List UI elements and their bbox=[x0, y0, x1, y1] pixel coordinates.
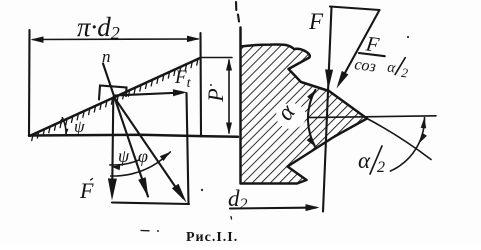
angle arc phi at force point bbox=[111, 152, 171, 176]
flank extension line for alpha/2 bbox=[367, 119, 431, 160]
svg-text:α: α bbox=[358, 148, 371, 173]
hatch ticks under hypotenuse bbox=[32, 59, 198, 141]
svg-text:φ: φ bbox=[138, 146, 148, 166]
baseline of incline bbox=[29, 135, 238, 137]
triangle top line bbox=[330, 7, 380, 11]
bottom line of force box bbox=[112, 203, 189, 205]
resultant arrow R bbox=[114, 97, 183, 198]
normal line n with reaction arrow bbox=[103, 64, 148, 197]
angle arc psi at force point bbox=[110, 160, 139, 165]
pitch dimension line P bbox=[228, 60, 230, 133]
svg-text:Рис.I.I.: Рис.I.I. bbox=[186, 230, 238, 245]
svg-text:d2: d2 bbox=[228, 186, 248, 213]
force F arrowhead on flank bbox=[325, 69, 333, 89]
white pocket under alpha label bbox=[276, 103, 306, 129]
svg-text:π·d2: π·d2 bbox=[77, 12, 120, 43]
vertical helper line under Ft tip bbox=[187, 93, 189, 204]
dimension extension line right bbox=[199, 33, 202, 137]
svg-text:ψ: ψ bbox=[118, 146, 130, 166]
svg-text:P: P bbox=[203, 88, 228, 102]
force line of action F (vertical through thread) bbox=[323, 7, 332, 212]
screw centerline dashes bbox=[236, 2, 239, 22]
incline hypotenuse bbox=[30, 58, 200, 136]
force F vertical arrow bbox=[112, 97, 113, 182]
dimension line pi*d2 bbox=[33, 38, 198, 41]
construction horizontal line through tooth tip bbox=[308, 116, 436, 118]
angle arc alpha/2 bbox=[390, 118, 424, 172]
right-angle marker at force point bbox=[99, 86, 127, 100]
svg-text:n: n bbox=[102, 47, 111, 66]
svg-text:F: F bbox=[308, 9, 324, 34]
angle psi arc at incline base bbox=[62, 118, 66, 135]
dimension line d2 bbox=[230, 207, 316, 210]
svg-text:F: F bbox=[79, 178, 94, 203]
svg-text:2: 2 bbox=[400, 65, 409, 81]
pitch dimension connector top bbox=[201, 57, 233, 59]
force F/cos(a/2) hypotenuse arrow bbox=[340, 10, 380, 82]
angle arc alpha bbox=[308, 90, 315, 146]
svg-text:2: 2 bbox=[377, 159, 385, 176]
svg-text:coз: coз bbox=[353, 56, 376, 75]
svg-text:ψ: ψ bbox=[74, 117, 85, 136]
svg-text:Ft: Ft bbox=[174, 67, 192, 91]
dimension extension line left bbox=[28, 30, 31, 136]
force Ft horizontal arrow bbox=[114, 93, 183, 96]
scan specks bbox=[210, 84, 212, 86]
label F/cos(alpha/2) fraction bbox=[353, 30, 412, 80]
